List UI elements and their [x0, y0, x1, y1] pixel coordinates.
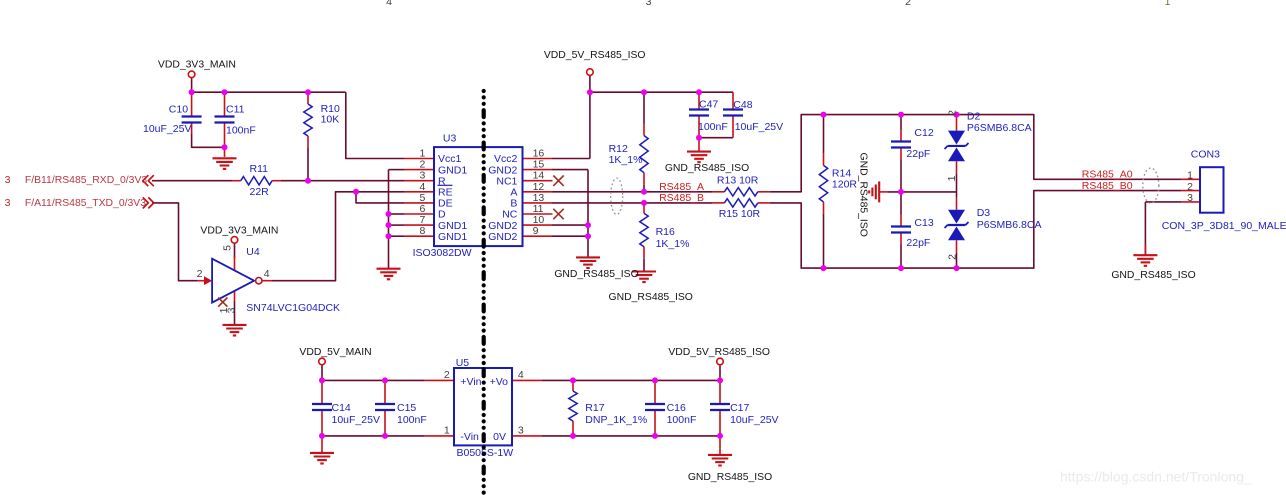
svg-text:1K_1%: 1K_1%	[609, 154, 643, 166]
svg-text:10uF_25V: 10uF_25V	[143, 123, 191, 135]
svg-text:GND_RS485_ISO: GND_RS485_ISO	[688, 472, 772, 483]
svg-text:2: 2	[905, 0, 911, 8]
svg-text:R13 10R: R13 10R	[717, 175, 759, 187]
svg-text:GND_RS485_ISO: GND_RS485_ISO	[554, 269, 638, 280]
svg-text:VDD_5V_MAIN: VDD_5V_MAIN	[299, 347, 371, 358]
svg-text:3: 3	[5, 174, 11, 186]
svg-text:3: 3	[5, 197, 11, 209]
svg-text:F/A11/RS485_TXD_0/3V3: F/A11/RS485_TXD_0/3V3	[25, 198, 146, 209]
svg-text:2: 2	[1187, 181, 1193, 193]
svg-text:SN74LVC1G04DCK: SN74LVC1G04DCK	[246, 302, 340, 314]
svg-text:C11: C11	[226, 104, 245, 116]
svg-text:C48: C48	[733, 99, 752, 111]
svg-text:4: 4	[518, 369, 524, 381]
svg-text:120R: 120R	[832, 179, 858, 191]
svg-text:22R: 22R	[250, 186, 270, 198]
svg-text:C15: C15	[397, 402, 416, 414]
svg-text:2: 2	[197, 268, 203, 280]
svg-text:1: 1	[1187, 170, 1193, 182]
svg-text:22pF: 22pF	[906, 237, 930, 249]
svg-text:CON_3P_3D81_90_MALE: CON_3P_3D81_90_MALE	[1162, 220, 1286, 232]
svg-text:+Vin: +Vin	[460, 376, 481, 388]
svg-text:C17: C17	[730, 402, 749, 414]
svg-text:100nF: 100nF	[397, 414, 427, 426]
svg-text:22pF: 22pF	[906, 148, 930, 160]
svg-text:100nF: 100nF	[698, 121, 728, 133]
svg-text:C10: C10	[169, 104, 188, 116]
svg-text:R11: R11	[250, 163, 269, 175]
svg-text:VDD_5V_RS485_ISO: VDD_5V_RS485_ISO	[668, 347, 770, 358]
svg-text:D2: D2	[967, 111, 981, 123]
svg-text:-Vin: -Vin	[460, 431, 479, 443]
svg-text:R17: R17	[585, 402, 604, 414]
svg-text:100nF: 100nF	[667, 414, 697, 426]
svg-text:https://blog.csdn.net/Tronlong: https://blog.csdn.net/Tronlong_	[1060, 469, 1252, 485]
svg-text:+Vo: +Vo	[490, 376, 509, 388]
svg-text:DNP_1K_1%: DNP_1K_1%	[585, 414, 647, 426]
svg-text:1K_1%: 1K_1%	[656, 238, 690, 250]
svg-text:4: 4	[264, 268, 270, 280]
svg-text:RS485_B: RS485_B	[659, 192, 704, 204]
svg-text:1: 1	[444, 424, 450, 436]
svg-text:C12: C12	[914, 127, 933, 139]
svg-text:RS485_A0: RS485_A0	[1082, 168, 1133, 180]
svg-text:C47: C47	[699, 99, 718, 111]
svg-text:D3: D3	[977, 207, 991, 219]
svg-text:C13: C13	[914, 217, 933, 229]
svg-text:VDD_3V3_MAIN: VDD_3V3_MAIN	[200, 225, 278, 236]
svg-text:VDD_3V3_MAIN: VDD_3V3_MAIN	[158, 60, 236, 71]
svg-text:0V: 0V	[493, 431, 506, 443]
svg-text:F/B11/RS485_RXD_0/3V3: F/B11/RS485_RXD_0/3V3	[25, 175, 147, 186]
svg-text:2: 2	[444, 369, 450, 381]
svg-text:GND_RS485_ISO: GND_RS485_ISO	[665, 163, 749, 174]
svg-text:P6SMB6.8CA: P6SMB6.8CA	[977, 219, 1042, 231]
svg-text:1: 1	[946, 175, 958, 181]
svg-text:U5: U5	[456, 357, 470, 369]
svg-text:R15 10R: R15 10R	[719, 208, 761, 220]
svg-text:5: 5	[222, 245, 234, 251]
svg-text:GND_RS485_ISO: GND_RS485_ISO	[1111, 270, 1195, 281]
svg-text:1: 1	[1165, 0, 1171, 8]
svg-text:8: 8	[419, 225, 425, 237]
svg-text:3: 3	[226, 307, 238, 313]
svg-text:GND2: GND2	[488, 231, 517, 243]
svg-text:9: 9	[533, 225, 539, 237]
svg-text:CON3: CON3	[1191, 149, 1220, 161]
svg-text:C14: C14	[332, 402, 351, 414]
svg-text:2: 2	[946, 110, 958, 116]
svg-text:VDD_5V_RS485_ISO: VDD_5V_RS485_ISO	[544, 50, 646, 61]
svg-text:3: 3	[1187, 192, 1193, 204]
svg-text:10K: 10K	[321, 113, 340, 125]
svg-text:100nF: 100nF	[226, 124, 256, 136]
svg-text:3: 3	[518, 424, 524, 436]
svg-text:R16: R16	[656, 226, 675, 238]
svg-text:RS485_B0: RS485_B0	[1082, 180, 1133, 192]
svg-text:U4: U4	[246, 246, 260, 258]
svg-text:10uF_25V: 10uF_25V	[735, 121, 783, 133]
svg-text:GND_RS485_ISO: GND_RS485_ISO	[609, 292, 693, 303]
svg-text:C16: C16	[667, 402, 686, 414]
svg-text:GND_RS485_ISO: GND_RS485_ISO	[858, 153, 869, 237]
svg-text:3: 3	[646, 0, 652, 8]
svg-text:4: 4	[386, 0, 392, 8]
svg-text:10uF_25V: 10uF_25V	[730, 414, 778, 426]
svg-text:2: 2	[946, 254, 958, 260]
svg-text:GND1: GND1	[438, 231, 467, 243]
svg-text:P6SMB6.8CA: P6SMB6.8CA	[967, 122, 1032, 134]
svg-text:10uF_25V: 10uF_25V	[332, 414, 380, 426]
svg-text:ISO3082DW: ISO3082DW	[413, 247, 472, 259]
svg-text:U3: U3	[443, 133, 457, 145]
